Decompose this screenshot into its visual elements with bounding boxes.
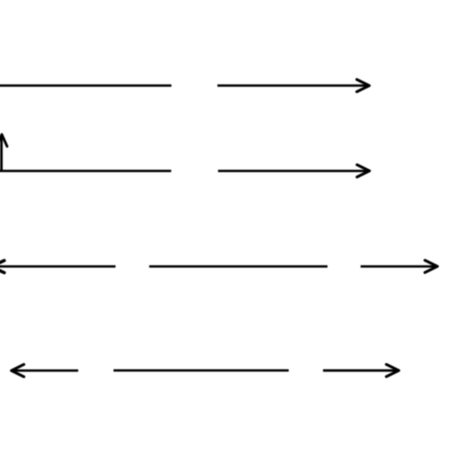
wire row2 segment B: [218, 170, 368, 172]
wire row4 segment C: [323, 369, 397, 371]
arrowhead row2 right: [357, 165, 370, 177]
wire row3 segment B: [149, 265, 327, 267]
arrow row2 vertical up: [0, 135, 3, 172]
wire row4 segment A: [13, 369, 78, 371]
arrowhead row4 right: [386, 364, 399, 376]
arrowhead row3 right: [425, 260, 438, 272]
wire row3 segment A: [0, 265, 116, 267]
arrowhead row3 left (clipped at edge): [0, 261, 4, 273]
wire row2 segment A: [0, 170, 171, 172]
wire row1 segment A: [0, 84, 171, 86]
arrowhead row1 right: [357, 80, 370, 92]
wire row1 segment B: [217, 84, 367, 86]
arrowhead row2 vertical tip: [0, 134, 7, 146]
wire row4 segment B: [114, 369, 289, 371]
wire row3 segment C: [361, 265, 436, 267]
arrowhead row4 left: [11, 364, 24, 376]
